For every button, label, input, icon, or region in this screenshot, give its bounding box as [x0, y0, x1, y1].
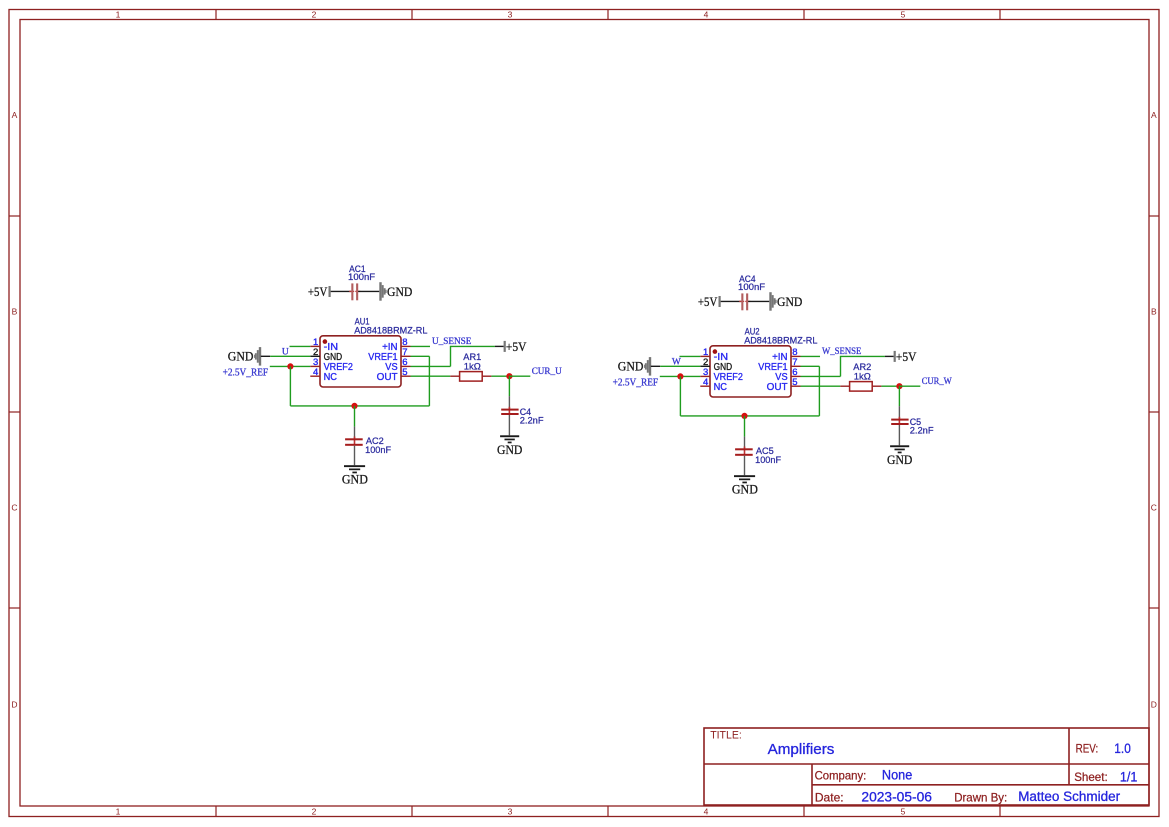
pin 2 (GND) — [700, 357, 732, 373]
svg-text:GND: GND — [342, 472, 368, 487]
junction — [506, 373, 512, 379]
junction — [287, 363, 293, 369]
wire — [744, 416, 746, 437]
wire — [651, 365, 660, 367]
wire — [721, 300, 742, 302]
capacitor AC5 100nF — [735, 437, 781, 476]
svg-text:1.0: 1.0 — [1114, 741, 1131, 756]
svg-text:GND: GND — [777, 294, 802, 309]
ground GND (input side) — [618, 357, 651, 376]
wire — [411, 345, 431, 347]
svg-text:CUR_W: CUR_W — [922, 377, 952, 387]
svg-text:Matteo Schmider: Matteo Schmider — [1018, 789, 1120, 804]
capacitor C5 2.2nF — [891, 406, 934, 445]
pin 7 (VREF1) — [758, 357, 800, 373]
wire — [840, 356, 842, 377]
svg-text:4: 4 — [313, 367, 318, 378]
capacitor AC1 100nF — [348, 264, 375, 300]
wire — [660, 365, 700, 367]
wire — [680, 415, 819, 417]
svg-text:W_SENSE: W_SENSE — [822, 347, 862, 357]
pin 3 (VREF2) — [700, 367, 743, 383]
svg-text:Amplifiers: Amplifiers — [768, 741, 835, 758]
wire — [354, 406, 356, 427]
svg-text:W: W — [672, 357, 681, 367]
svg-text:NC: NC — [714, 381, 728, 393]
svg-text:D: D — [11, 700, 17, 710]
svg-text:A: A — [12, 110, 18, 120]
svg-text:100nF: 100nF — [348, 272, 375, 283]
wire — [290, 405, 429, 407]
wire — [660, 375, 701, 377]
svg-text:5: 5 — [402, 367, 407, 378]
wire — [428, 356, 430, 406]
svg-text:OUT: OUT — [377, 371, 399, 383]
ground GND (input side) — [228, 347, 261, 366]
wire — [411, 375, 451, 377]
pin 7 (VREF1) — [368, 347, 410, 363]
svg-text:REV:: REV: — [1076, 742, 1099, 756]
pin 3 (VREF2) — [310, 357, 353, 373]
svg-text:100nF: 100nF — [755, 455, 781, 466]
wire — [290, 345, 311, 347]
power +5V (supply) — [504, 339, 527, 354]
power +5V (supply) — [894, 349, 917, 364]
capacitor AC4 100nF — [738, 274, 765, 310]
pin 8 (+IN) — [772, 347, 800, 363]
svg-text:5: 5 — [792, 377, 797, 388]
pin 1 (-IN) — [700, 347, 728, 363]
op-amp AU1 AD8418BRMZ-RL — [320, 317, 427, 387]
wire — [495, 345, 504, 347]
svg-text:D: D — [1151, 700, 1157, 710]
resistor AR1 1k — [450, 352, 491, 381]
wire — [450, 346, 452, 367]
svg-text:C: C — [1151, 503, 1157, 513]
svg-text:4: 4 — [704, 10, 709, 20]
svg-text:+2.5V_REF: +2.5V_REF — [223, 368, 269, 379]
svg-text:+5V: +5V — [308, 284, 328, 299]
pin 5 (OUT) — [377, 367, 411, 383]
svg-text:2: 2 — [312, 10, 317, 20]
pin 5 (OUT) — [767, 377, 801, 393]
wire — [411, 365, 451, 367]
pin 2 (GND) — [310, 347, 342, 363]
wire — [748, 300, 769, 302]
svg-text:GND: GND — [887, 452, 912, 467]
svg-text:+5V: +5V — [896, 349, 917, 364]
wire — [508, 376, 510, 396]
svg-text:5: 5 — [901, 10, 906, 20]
svg-text:100nF: 100nF — [365, 445, 391, 456]
svg-text:1: 1 — [116, 10, 121, 20]
wire — [801, 355, 821, 357]
svg-text:1kΩ: 1kΩ — [464, 362, 481, 373]
wire — [270, 355, 310, 357]
ground GND (decoupling) — [379, 282, 412, 301]
title block — [704, 728, 1149, 805]
svg-text:CUR_U: CUR_U — [532, 367, 562, 377]
junction — [896, 383, 902, 389]
wire — [261, 355, 270, 357]
wire — [885, 355, 894, 357]
wire — [680, 355, 701, 357]
svg-text:1/1: 1/1 — [1120, 769, 1138, 784]
pin 4 (NC) — [310, 367, 337, 383]
wire — [801, 385, 841, 387]
wire — [451, 345, 495, 347]
pin 1 (-IN) — [310, 337, 338, 353]
svg-text:OUT: OUT — [767, 381, 789, 393]
power +5V (right) — [698, 294, 721, 309]
svg-text:GND: GND — [618, 359, 644, 374]
ground GND (reference cap) — [732, 475, 758, 496]
svg-text:GND: GND — [732, 482, 758, 497]
svg-text:GND: GND — [497, 442, 522, 457]
capacitor C4 2.2nF — [501, 396, 544, 435]
power +5V (left) — [308, 284, 331, 299]
svg-text:GND: GND — [387, 284, 412, 299]
ground GND (reference cap) — [342, 465, 368, 486]
wire — [801, 375, 841, 377]
pin 8 (+IN) — [382, 337, 410, 353]
svg-text:2023-05-06: 2023-05-06 — [861, 789, 932, 804]
svg-text:4: 4 — [703, 377, 708, 388]
wire — [491, 375, 509, 377]
svg-text:AD8418BRMZ-RL: AD8418BRMZ-RL — [354, 326, 427, 337]
capacitor AC2 100nF — [345, 427, 391, 466]
wire — [801, 365, 820, 367]
svg-text:B: B — [12, 307, 18, 317]
wire — [331, 290, 352, 292]
pin 6 (VS) — [775, 367, 800, 383]
ground GND (output cap) — [497, 435, 522, 457]
svg-text:A: A — [1151, 110, 1157, 120]
op-amp AU2 AD8418BRMZ-RL — [710, 327, 817, 397]
wire — [841, 355, 885, 357]
svg-text:C: C — [11, 503, 17, 513]
svg-text:1kΩ: 1kΩ — [854, 372, 871, 383]
junction — [351, 403, 357, 409]
svg-text:None: None — [882, 767, 912, 782]
svg-text:NC: NC — [324, 371, 338, 383]
wire — [881, 385, 899, 387]
svg-text:2.2nF: 2.2nF — [520, 415, 544, 426]
wire — [679, 376, 681, 416]
svg-text:1: 1 — [116, 806, 121, 816]
svg-text:Drawn By:: Drawn By: — [954, 790, 1007, 804]
svg-text:100nF: 100nF — [738, 282, 765, 293]
svg-text:+5V: +5V — [698, 294, 718, 309]
svg-text:2: 2 — [312, 806, 317, 816]
svg-text:+5V: +5V — [506, 339, 527, 354]
wire — [818, 366, 820, 416]
svg-text:Company:: Company: — [815, 768, 867, 782]
svg-text:U_SENSE: U_SENSE — [432, 337, 472, 347]
svg-text:TITLE:: TITLE: — [710, 730, 742, 742]
svg-text:2.2nF: 2.2nF — [910, 425, 934, 436]
wire — [358, 290, 379, 292]
svg-text:GND: GND — [228, 349, 254, 364]
svg-text:Sheet:: Sheet: — [1074, 770, 1108, 784]
junction — [741, 413, 747, 419]
ground GND (output cap) — [887, 445, 912, 467]
amplifier circuit W (right) — [613, 274, 952, 497]
wire — [411, 355, 430, 357]
svg-text:+2.5V_REF: +2.5V_REF — [613, 378, 659, 389]
resistor AR2 1k — [840, 362, 881, 391]
svg-text:U: U — [282, 347, 289, 357]
wire — [899, 385, 920, 387]
ground GND (decoupling) — [769, 292, 802, 311]
svg-text:5: 5 — [901, 806, 906, 816]
wire — [509, 375, 530, 377]
wire — [898, 386, 900, 406]
junction — [677, 373, 683, 379]
wire — [270, 365, 311, 367]
svg-text:3: 3 — [508, 10, 513, 20]
amplifier circuit U (left) — [223, 264, 562, 487]
svg-text:B: B — [1151, 307, 1157, 317]
pin 6 (VS) — [385, 357, 410, 373]
svg-text:AD8418BRMZ-RL: AD8418BRMZ-RL — [744, 336, 817, 347]
svg-text:3: 3 — [508, 806, 513, 816]
svg-text:4: 4 — [704, 806, 709, 816]
pin 4 (NC) — [700, 377, 727, 393]
svg-text:Date:: Date: — [815, 790, 844, 804]
wire — [289, 366, 291, 406]
